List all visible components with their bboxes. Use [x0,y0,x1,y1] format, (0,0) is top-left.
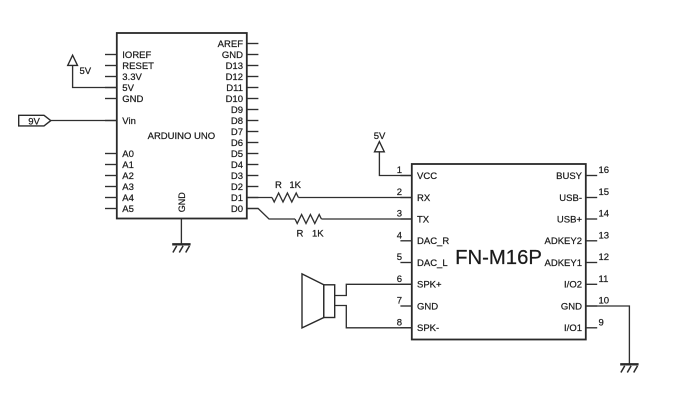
svg-text:D9: D9 [231,105,243,116]
svg-text:D2: D2 [231,182,243,193]
svg-text:5V: 5V [122,83,134,94]
svg-text:D10: D10 [226,94,243,105]
svg-text:3: 3 [397,209,402,220]
svg-text:I/O1: I/O1 [564,323,582,334]
svg-text:GND: GND [222,50,243,61]
svg-text:D13: D13 [226,61,243,72]
svg-text:A2: A2 [122,171,134,182]
svg-text:GND: GND [177,192,187,213]
svg-text:IOREF: IOREF [122,50,151,61]
svg-text:9: 9 [599,317,604,328]
svg-text:FN-M16P: FN-M16P [455,247,542,269]
svg-text:SPK+: SPK+ [417,280,442,291]
svg-text:D1: D1 [231,193,243,204]
svg-text:13: 13 [599,230,610,241]
svg-text:DAC_L: DAC_L [417,258,448,269]
svg-text:12: 12 [599,252,610,263]
svg-text:GND: GND [122,94,143,105]
svg-text:1K: 1K [312,228,324,239]
svg-text:A5: A5 [122,204,134,215]
svg-text:3.3V: 3.3V [122,72,142,83]
svg-text:R: R [275,180,282,191]
svg-text:D6: D6 [231,138,243,149]
svg-text:A1: A1 [122,160,134,171]
svg-text:5V: 5V [374,131,386,142]
svg-text:GND: GND [417,301,438,312]
svg-text:1K: 1K [289,180,301,191]
svg-text:4: 4 [397,230,402,241]
svg-text:6: 6 [397,274,402,285]
svg-text:AREF: AREF [218,39,244,50]
svg-text:D4: D4 [231,160,243,171]
svg-text:GND: GND [561,301,582,312]
svg-text:16: 16 [599,165,610,176]
svg-text:D11: D11 [226,83,243,94]
svg-text:14: 14 [599,209,610,220]
svg-text:D8: D8 [231,116,243,127]
svg-text:15: 15 [599,187,610,198]
svg-text:A0: A0 [122,149,134,160]
svg-text:D12: D12 [226,72,243,83]
svg-text:RX: RX [417,193,431,204]
svg-text:Vin: Vin [122,116,136,127]
svg-text:7: 7 [397,296,402,307]
svg-text:RESET: RESET [122,61,154,72]
svg-text:10: 10 [599,296,610,307]
svg-text:R: R [297,228,304,239]
svg-text:5: 5 [397,252,402,263]
svg-text:11: 11 [599,274,609,285]
svg-text:D0: D0 [231,204,243,215]
svg-text:DAC_R: DAC_R [417,236,449,247]
svg-text:D7: D7 [231,127,243,138]
svg-text:A4: A4 [122,193,134,204]
svg-text:ARDUINO UNO: ARDUINO UNO [148,131,216,142]
svg-text:D5: D5 [231,149,243,160]
svg-text:ADKEY1: ADKEY1 [545,258,583,269]
svg-text:5V: 5V [80,66,92,77]
svg-text:USB+: USB+ [557,214,583,225]
svg-text:ADKEY2: ADKEY2 [545,236,583,247]
svg-text:TX: TX [417,214,430,225]
svg-text:1: 1 [397,165,402,176]
svg-text:9V: 9V [28,117,40,128]
svg-text:USB-: USB- [559,193,582,204]
svg-text:A3: A3 [122,182,134,193]
svg-text:SPK-: SPK- [417,323,439,334]
svg-text:2: 2 [397,187,402,198]
svg-text:D3: D3 [231,171,243,182]
svg-text:BUSY: BUSY [556,171,583,182]
svg-text:I/O2: I/O2 [564,280,582,291]
svg-text:8: 8 [397,317,402,328]
svg-text:VCC: VCC [417,171,437,182]
